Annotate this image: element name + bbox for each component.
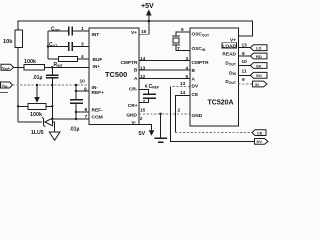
wire VIN- row to IN- pin 10 (13, 84, 90, 86)
capacitor CINT (48, 27, 89, 36)
TC520A right pin labels (222, 38, 237, 86)
svg-text:OSCOUT: OSCOUT (192, 32, 210, 38)
capacitor .01u input filter (33, 67, 59, 85)
svg-text:CAZ: CAZ (49, 42, 57, 48)
svg-text:CMPTR: CMPTR (120, 60, 138, 66)
svg-text:LD: LD (256, 46, 261, 51)
svg-text:.01µ: .01µ (70, 127, 80, 133)
node +5V supply arrow (139, 3, 154, 35)
edge artifact line (0, 92, 8, 94)
svg-text:CR+: CR+ (128, 103, 138, 109)
svg-text:1LU5: 1LU5 (31, 130, 44, 136)
svg-text:DV: DV (192, 83, 199, 89)
svg-text:OSCIN: OSCIN (192, 46, 206, 52)
svg-text:READ: READ (222, 51, 236, 57)
svg-text:REF-: REF- (92, 108, 104, 114)
wire A interchip (139, 78, 190, 80)
zener diode 1LU5 (18, 117, 53, 136)
wire B interchip (139, 69, 190, 71)
terminal SK (250, 63, 267, 69)
wire COM pin 7 (51, 118, 89, 120)
op-amp U1 TC500 (89, 28, 139, 125)
svg-text:REF+: REF+ (92, 90, 105, 96)
svg-text:2: 2 (140, 116, 143, 122)
svg-text:9: 9 (242, 77, 245, 83)
terminal SI (253, 81, 268, 87)
node input junction (51, 66, 53, 68)
svg-text:V-: V- (131, 120, 136, 126)
svg-text:TC520A: TC520A (208, 99, 234, 106)
svg-text:INT: INT (92, 32, 100, 38)
LOAD overline box (222, 43, 237, 49)
svg-text:CMPTR: CMPTR (192, 60, 210, 66)
svg-text:DV: DV (257, 139, 263, 144)
capacitor .01u ref (70, 100, 84, 133)
TC500 left pin labels (92, 32, 105, 121)
svg-text:13: 13 (180, 81, 186, 87)
resistor RINT (48, 57, 89, 69)
svg-text:4: 4 (81, 54, 84, 60)
terminal LD (250, 45, 267, 51)
svg-text:TC500: TC500 (105, 70, 127, 79)
svg-text:SO: SO (256, 73, 262, 78)
svg-text:CE: CE (257, 131, 263, 136)
wire CE pin14 drop (176, 96, 253, 133)
svg-text:SI: SI (255, 82, 259, 87)
svg-text:DOUT: DOUT (225, 61, 237, 67)
svg-text:14: 14 (180, 90, 186, 96)
wire REF- pin 8 (75, 111, 89, 113)
svg-text:RD: RD (256, 54, 262, 59)
potentiometer 100k (17, 85, 54, 118)
TC520A right pin numbers (242, 43, 248, 83)
svg-text:16: 16 (141, 29, 147, 35)
svg-text:A: A (192, 77, 196, 83)
node REF vertical (75, 85, 89, 100)
svg-text:5: 5 (186, 74, 189, 80)
svg-text:VIN+: VIN+ (2, 65, 11, 71)
svg-text:CREF: CREF (149, 84, 159, 90)
capacitor CREF (139, 84, 159, 103)
svg-text:10: 10 (242, 59, 248, 65)
TC500 right pin labels (120, 30, 138, 126)
TC520A left pin labels (192, 32, 210, 120)
wire VIN+ row to IN+ pin 11 (14, 66, 90, 68)
svg-text:6: 6 (181, 27, 184, 33)
wire +5V top rail (18, 21, 253, 36)
svg-text:8: 8 (85, 107, 88, 113)
TC520A left pin numbers (177, 27, 189, 114)
svg-text:SK: SK (256, 63, 262, 68)
wire GND net TC500 pin15 to TC520A pin2 (139, 113, 190, 115)
svg-text:3: 3 (81, 42, 84, 48)
svg-text:CINT: CINT (51, 27, 61, 33)
wire left vertical from 10k to zener row (17, 48, 19, 123)
svg-text:+5V: +5V (141, 3, 154, 10)
crystal Y1 (172, 32, 190, 51)
node -5V supply (139, 124, 155, 136)
svg-text:9: 9 (84, 87, 87, 93)
wire LOAD row (239, 47, 251, 49)
wire SCLK row (239, 83, 253, 85)
wire CMPTR interchip (139, 60, 190, 62)
svg-text:15: 15 (140, 108, 146, 114)
node VIN- junction dots (36, 84, 77, 86)
IC U2 TC520A (190, 28, 239, 126)
terminal RD (250, 53, 267, 59)
svg-text:2: 2 (178, 108, 181, 114)
svg-text:GND: GND (126, 113, 137, 119)
TC500 left pin numbers (80, 26, 88, 120)
resistor 10k (3, 30, 23, 48)
svg-text:11: 11 (242, 68, 247, 74)
svg-text:LOAD: LOAD (222, 44, 236, 50)
svg-text:100k: 100k (30, 112, 42, 118)
wire READ row (239, 55, 251, 57)
svg-text:7: 7 (85, 114, 88, 120)
svg-text:10k: 10k (3, 39, 13, 45)
svg-text:IN+: IN+ (93, 64, 101, 70)
svg-text:VIN-: VIN- (2, 83, 10, 89)
svg-text:RINT: RINT (54, 62, 64, 68)
svg-text:COM: COM (92, 115, 103, 121)
node integrator vertical (47, 31, 49, 59)
svg-text:4: 4 (186, 65, 189, 71)
terminal CE (252, 130, 266, 136)
wire DV pin13 drop (171, 87, 255, 142)
svg-text:5V: 5V (139, 131, 146, 137)
svg-text:DOUT: DOUT (225, 79, 237, 85)
terminal VIN- (1, 82, 13, 89)
terminal SO (250, 72, 267, 78)
svg-text:DIN: DIN (229, 70, 236, 76)
terminal VIN+ (1, 64, 14, 71)
TC500 right pin numbers (140, 29, 148, 122)
ground symbol (155, 113, 168, 143)
svg-text:10: 10 (80, 79, 86, 85)
svg-text:100k: 100k (24, 59, 36, 65)
svg-text:3: 3 (186, 56, 189, 62)
svg-text:BUF: BUF (93, 57, 103, 63)
terminal DV (255, 139, 269, 145)
resistor 100k input (24, 59, 45, 70)
wire DIN row (239, 74, 251, 76)
wire DOUT row (239, 65, 251, 67)
svg-text:CR-: CR- (129, 87, 138, 93)
wire common vertical (51, 85, 53, 122)
svg-text:7: 7 (177, 46, 180, 52)
svg-text:A: A (134, 76, 138, 82)
capacitor CAZ (47, 42, 89, 51)
svg-text:GND: GND (192, 113, 203, 119)
svg-text:B: B (134, 67, 138, 73)
svg-text:.01µ: .01µ (33, 75, 43, 81)
svg-text:CE: CE (192, 92, 199, 98)
svg-text:B: B (192, 68, 196, 74)
svg-text:6: 6 (145, 84, 148, 90)
svg-text:V+: V+ (131, 30, 137, 36)
svg-text:1: 1 (81, 26, 84, 32)
common triangle symbol (49, 122, 60, 140)
